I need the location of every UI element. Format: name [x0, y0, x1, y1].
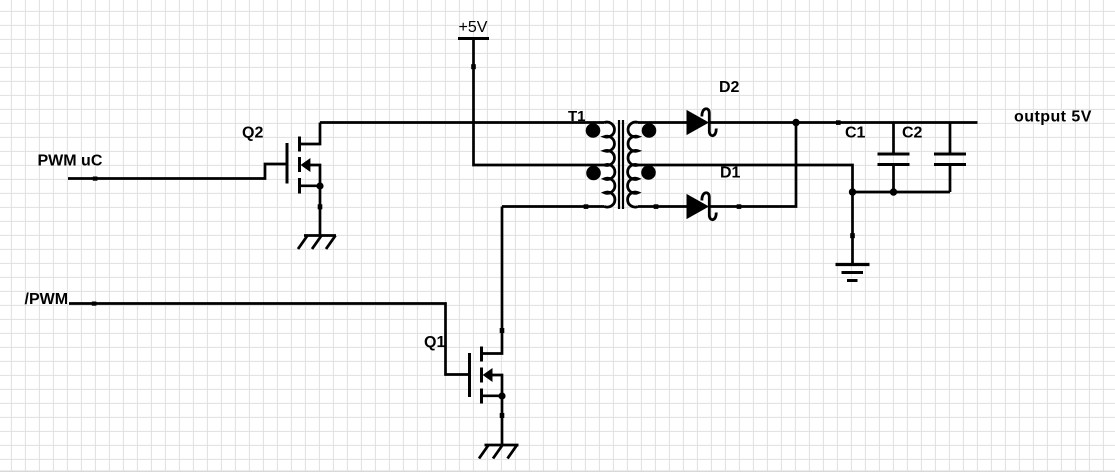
wire Q1 drain to transformer bottom terminal [502, 205, 605, 208]
diode D2 schottky cathode [702, 109, 716, 136]
diode D1 triangle [687, 195, 708, 219]
capacitor C2 plates [934, 154, 966, 165]
wire output rail [796, 121, 978, 124]
svg-text:Q2: Q2 [242, 125, 263, 142]
phase dot secondary top [642, 123, 657, 138]
junction dot C1 bottom [890, 188, 897, 195]
wire Q2 source to ground [319, 186, 322, 236]
ground Q2 [298, 236, 336, 250]
junction dot Q1 source [498, 392, 505, 399]
svg-text:+5V: +5V [459, 19, 488, 36]
wire PWM uC net [68, 164, 287, 179]
svg-text:Q1: Q1 [424, 334, 445, 351]
junction dot Q2 source [316, 182, 323, 189]
phase dot primary top [586, 123, 601, 138]
junction nub on Q2 source wire [318, 204, 323, 209]
svg-text:T1: T1 [568, 108, 586, 125]
svg-text:D2: D2 [719, 79, 740, 96]
transistor Q2 channel dashes [298, 137, 301, 194]
transistor Q2 body arrow [301, 159, 310, 171]
junction nub on top rail [836, 120, 841, 125]
svg-text:/PWM: /PWM [25, 291, 69, 308]
wire +5V to transformer center tap [474, 39, 605, 166]
wire /PWM net [69, 304, 470, 375]
power +5V bar [458, 37, 489, 40]
ground output (earth bars) [836, 265, 870, 281]
transistor Q1 channel dashes [480, 347, 483, 404]
junction nub on D1 wire [737, 204, 742, 209]
transistor Q2 gate bar [286, 143, 289, 184]
svg-text:C2: C2 [902, 125, 923, 142]
transistor Q1 source stub [482, 394, 503, 397]
capacitor C2 top lead [949, 123, 952, 155]
junction nub on Q1 drain wire [500, 328, 505, 333]
transformer T1 primary winding [605, 122, 615, 207]
phase dot primary bottom [586, 166, 601, 181]
junction nub on +5V wire [471, 64, 476, 69]
junction nub on bottom terminal [584, 204, 589, 209]
svg-text:PWM uC: PWM uC [38, 153, 103, 170]
capacitor C2 bottom lead [949, 165, 952, 193]
junction nub on center tap vertical [850, 233, 855, 238]
wire secondary top terminal to D2 [638, 121, 688, 124]
junction nub on /PWM wire [92, 302, 97, 306]
diode D1 schottky cathode [702, 193, 716, 220]
phase dot secondary bottom [641, 165, 656, 180]
junction nub on Q1 source wire [500, 413, 505, 418]
wire top rail Q2 drain to transformer [320, 121, 605, 124]
ground Q1 [479, 445, 519, 459]
transistor Q1 drain stub [482, 207, 503, 354]
wire D1 cathode to output node [709, 123, 796, 207]
transistor Q1 body arrow [483, 369, 492, 381]
wire Q1 source to ground [501, 396, 504, 445]
transformer T1 core [619, 120, 623, 209]
bottom edge strip [0, 471, 1115, 472]
diode D2 triangle [687, 111, 708, 135]
capacitor C1 plates [878, 154, 910, 165]
svg-text:output 5V: output 5V [1014, 109, 1092, 126]
svg-text:D1: D1 [720, 165, 741, 182]
transistor Q1 body tie wire [491, 375, 502, 396]
junction nub on PWM wire [93, 177, 98, 181]
wire bottom rail [853, 191, 951, 194]
transistor Q2 body tie wire [309, 165, 320, 186]
transistor Q2 source stub [300, 184, 321, 187]
transformer T1 secondary winding [628, 122, 638, 207]
capacitor C1 top lead [892, 123, 895, 155]
junction dot output node [792, 119, 799, 126]
transistor Q2 drain stub [300, 123, 321, 145]
capacitor C1 bottom lead [892, 165, 895, 193]
wire secondary bottom terminal to D1 [638, 205, 688, 208]
wire D2 cathode to output node [709, 121, 796, 124]
svg-text:C1: C1 [845, 125, 866, 142]
junction dot bottom rail left [849, 188, 856, 195]
transistor Q1 gate bar [468, 353, 471, 397]
junction nub on D1 anode wire [654, 204, 659, 209]
wire secondary center tap rail [638, 165, 853, 265]
